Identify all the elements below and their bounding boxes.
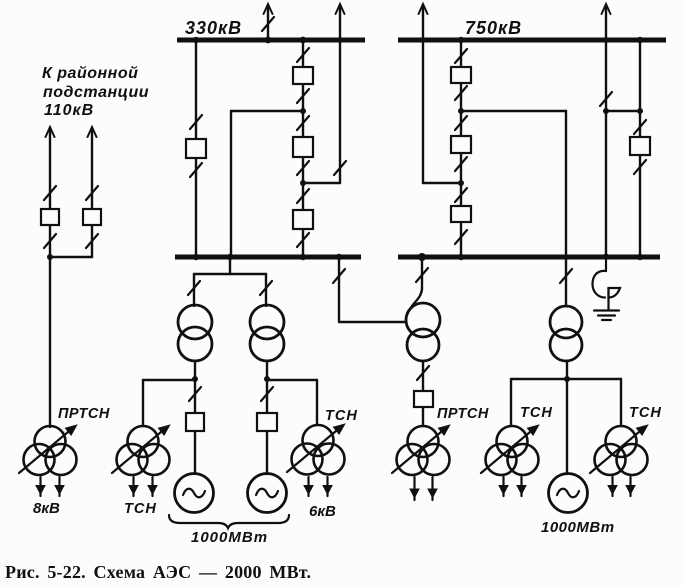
svg-text:ТСН: ТСН (124, 501, 157, 517)
svg-text:ТСН: ТСН (629, 405, 662, 421)
svg-text:ПРТСН: ПРТСН (58, 406, 110, 422)
svg-text:110кВ: 110кВ (44, 102, 94, 119)
svg-text:750кВ: 750кВ (465, 18, 522, 38)
svg-text:Рис. 5-22. Схема АЭС — 2000 МВ: Рис. 5-22. Схема АЭС — 2000 МВт. (5, 562, 311, 582)
svg-text:1000МВт: 1000МВт (541, 519, 615, 536)
svg-text:6кВ: 6кВ (309, 503, 336, 520)
svg-text:ТСН: ТСН (325, 408, 358, 424)
svg-text:8кВ: 8кВ (33, 500, 60, 517)
svg-text:1000МВт: 1000МВт (191, 529, 268, 546)
svg-text:ПРТСН: ПРТСН (437, 406, 489, 422)
svg-text:К районной: К районной (42, 65, 138, 82)
svg-text:подстанции: подстанции (43, 84, 149, 101)
svg-text:ТСН: ТСН (520, 405, 553, 421)
svg-text:330кВ: 330кВ (185, 18, 242, 38)
